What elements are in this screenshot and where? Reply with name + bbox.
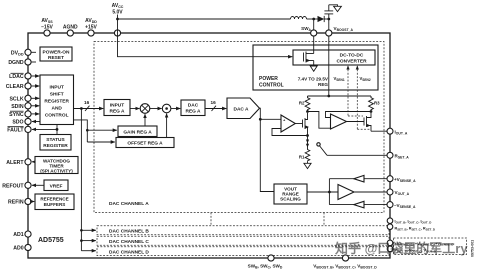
svg-text:7.4V TO 29.5V: 7.4V TO 29.5V: [298, 77, 329, 82]
node VBOOST junction: [327, 18, 330, 21]
adder X2: [162, 104, 171, 113]
pin SYNC: [9, 111, 31, 118]
wire REFIN in: [31, 201, 34, 203]
wire DAC A output down: [260, 108, 275, 191]
DAC CHANNEL A dashed box: [94, 42, 384, 213]
pin RSET_BCD: [387, 224, 435, 231]
pin SDO: [12, 118, 31, 125]
wire REFOUT out: [32, 184, 44, 186]
svg-text:SYNC: SYNC: [9, 112, 24, 118]
svg-text:AD1: AD1: [13, 232, 23, 238]
svg-text:FAULT: FAULT: [7, 127, 24, 133]
node R2 bottom: [306, 110, 309, 113]
svg-text:REGISTER: REGISTER: [44, 98, 69, 104]
chip outline AD5755: [28, 33, 390, 258]
svg-text:09753-001: 09753-001: [471, 240, 475, 257]
transistor Q2: [303, 113, 310, 136]
svg-text:SHIFT: SHIFT: [50, 91, 64, 97]
dc-to-dc converter box: [293, 50, 375, 65]
wire boost rail: [308, 95, 372, 97]
node source junction: [306, 134, 309, 137]
transistor Q3: [364, 113, 371, 131]
status register box: [40, 135, 71, 151]
svg-text:REG: REG: [318, 82, 328, 87]
wire to RSET pin: [327, 154, 390, 156]
pin LDAC: [9, 73, 31, 80]
pin +VSENSE_BCD: [387, 240, 453, 247]
wire SWA pin to Q1 drain: [313, 36, 315, 53]
op-amp U2: [331, 114, 347, 129]
pin VOUT_BCD: [387, 246, 436, 253]
node channel C junction: [80, 239, 83, 242]
switch S1: [317, 143, 327, 156]
node R3 bottom: [370, 110, 373, 113]
capacitor C1: [324, 5, 333, 19]
svg-text:REFOUT: REFOUT: [2, 183, 24, 189]
svg-text:DAC A: DAC A: [233, 106, 249, 112]
wire diode to boost node: [324, 18, 329, 20]
input reg A box: [104, 100, 130, 116]
node bus junction: [80, 107, 83, 110]
svg-text:REG A: REG A: [185, 109, 201, 115]
ground Q1 source: [310, 66, 317, 71]
svg-text:INPUT: INPUT: [110, 102, 124, 108]
node DAC A branch: [259, 118, 262, 121]
wire ALERT out: [32, 161, 35, 163]
ground R1: [304, 162, 311, 169]
svg-text:CLEAR: CLEAR: [6, 84, 24, 90]
svg-text:LDAC: LDAC: [9, 74, 24, 80]
svg-text:+15V: +15V: [85, 25, 97, 31]
svg-text:R1: R1: [299, 155, 305, 160]
pin SCLK: [9, 95, 31, 102]
wire AVCC down to pin: [117, 15, 119, 34]
DAC CHANNEL B dashed box: [97, 226, 389, 235]
op-amp U3 output: [338, 185, 354, 200]
wire SW node to pin: [313, 19, 315, 33]
buffer +sense: [329, 175, 390, 182]
wire SDO out: [32, 121, 40, 123]
wire SDIN: [31, 105, 39, 107]
svg-text:SDIN: SDIN: [11, 104, 24, 110]
svg-text:INPUT: INPUT: [49, 84, 63, 90]
offset reg A box: [116, 138, 174, 148]
pin +VSENSE_A: [387, 176, 416, 183]
svg-text:AGND: AGND: [63, 25, 78, 31]
node AVCC junction: [116, 18, 119, 21]
dashed label box BCD sense: [394, 238, 467, 255]
svg-text:AND: AND: [51, 105, 62, 111]
wire 16-bit bus to input reg: [74, 108, 104, 110]
wire to opamp1: [260, 118, 281, 120]
wire vout box to amp: [307, 191, 338, 193]
svg-text:CONTROL: CONTROL: [259, 82, 284, 88]
svg-text:POWER: POWER: [259, 76, 278, 82]
wire dac reg to DAC A: [205, 108, 226, 110]
pin IOUT_A: [387, 128, 408, 135]
wire multiplier to adder: [150, 108, 162, 110]
svg-text:SCALING: SCALING: [280, 197, 301, 202]
wire offset reg to adder: [166, 114, 168, 138]
wire LDAC: [31, 75, 39, 77]
node boost rail junction: [327, 95, 330, 98]
wire VSEN2 dashed: [356, 65, 371, 129]
resistor R2: [299, 96, 310, 112]
svg-text:BUFFERS: BUFFERS: [44, 202, 66, 207]
svg-text:CONVERTER: CONVERTER: [336, 58, 367, 64]
svg-text:RSET_B, RSET_C, RSET_D: RSET_B, RSET_C, RSET_D: [395, 227, 435, 232]
wire opamp2 feedback: [326, 112, 372, 118]
wire inductor to diode: [307, 18, 318, 20]
pin AVDD: [85, 18, 97, 36]
power control box: [253, 45, 378, 90]
wire VBOOST pin down to rail: [328, 36, 330, 96]
wire boost node to pin: [328, 19, 330, 33]
input shift register box U-ctrl: [40, 75, 74, 125]
svg-text:(SPI ACTIVITY): (SPI ACTIVITY): [40, 168, 73, 173]
svg-text:VREF: VREF: [50, 183, 63, 189]
svg-text:DC-TO-DC: DC-TO-DC: [340, 53, 364, 59]
wire arrow into channel D: [81, 250, 95, 252]
pin VBOOST_BCD: [313, 255, 377, 270]
pin REFIN: [8, 198, 31, 205]
svg-text:ALERT: ALERT: [6, 160, 24, 166]
wire R2 node to opamp2 input: [308, 112, 331, 129]
pin AVSS: [41, 18, 53, 36]
multiplier X1: [140, 104, 150, 114]
svg-text:REFIN: REFIN: [8, 200, 24, 206]
pin DVDD: [11, 49, 31, 56]
inductor L1: [291, 17, 307, 20]
svg-text:RESET: RESET: [48, 55, 64, 61]
svg-text:R3: R3: [374, 101, 380, 106]
svg-text:DGND: DGND: [8, 60, 24, 66]
svg-text:16: 16: [84, 100, 90, 105]
dac reg A box: [181, 100, 205, 116]
svg-text:SCLK: SCLK: [9, 96, 23, 102]
transistor Q1 power switch: [304, 52, 314, 67]
buffer -sense: [329, 201, 390, 208]
wire SCLK: [31, 97, 39, 99]
pin AVCC: [112, 3, 124, 36]
resistor R1: [299, 149, 310, 162]
wire gain reg feed: [87, 129, 117, 131]
svg-text:IOUT_B, IOUT_C, IOUT_D: IOUT_B, IOUT_C, IOUT_D: [395, 220, 432, 225]
svg-text:16: 16: [211, 100, 217, 105]
label bus 16: [84, 100, 90, 111]
wire amp to VOUT pin: [354, 191, 390, 193]
svg-text:GAIN REG A: GAIN REG A: [123, 130, 152, 136]
wire AVCC to inductor: [118, 18, 291, 20]
vout range scaling box: [274, 184, 307, 204]
svg-text:R2: R2: [299, 101, 305, 106]
svg-text:POWER-ON: POWER-ON: [43, 49, 70, 55]
pin AD1: [13, 231, 31, 238]
svg-text:OFFSET REG A: OFFSET REG A: [127, 141, 163, 147]
pin ALERT: [6, 159, 31, 166]
wire adder to dac reg: [171, 108, 180, 110]
svg-text:SDO: SDO: [12, 120, 23, 126]
node vout junction: [328, 191, 331, 194]
wire AVCC to power control: [118, 33, 293, 57]
svg-text:DAC CHANNEL C: DAC CHANNEL C: [109, 239, 149, 245]
pin IOUT_BCD: [387, 218, 431, 225]
current source arrows: [306, 136, 309, 150]
DAC CHANNEL D dashed box: [97, 247, 389, 256]
ground top-right: [334, 6, 342, 11]
gain reg A box: [118, 126, 157, 137]
wire FAULT out: [32, 128, 57, 130]
node FAULT junction: [56, 128, 59, 131]
wire DGND stub: [31, 61, 36, 63]
svg-text:DAC: DAC: [188, 103, 199, 109]
wire DVDD stub: [31, 51, 36, 53]
svg-text:REGISTER: REGISTER: [43, 143, 68, 149]
wire cap to ground: [329, 5, 338, 7]
svg-text:REFERENCE: REFERENCE: [40, 197, 68, 202]
wire dashed connector left: [210, 213, 212, 226]
vref box: [44, 180, 68, 191]
node gain feed junction: [86, 129, 89, 132]
wire arrow into channel C: [81, 240, 95, 242]
resistor R3: [369, 96, 381, 112]
wire offset reg feed: [87, 141, 115, 143]
svg-text:–15V: –15V: [41, 25, 53, 31]
pin CLEAR: [6, 83, 31, 90]
pin -VSENSE_A: [387, 202, 416, 209]
svg-text:AD5755: AD5755: [38, 237, 64, 244]
svg-text:DAC CHANNEL A: DAC CHANNEL A: [109, 201, 149, 207]
DAC A pentagon: [227, 98, 260, 119]
pin AD0: [13, 244, 31, 251]
wire opamp2 to Q3 gate: [347, 121, 365, 123]
pin FAULT: [7, 126, 31, 133]
op-amp U1: [281, 115, 295, 132]
wire channel bus vertical: [80, 109, 82, 251]
wire gain reg to multiplier: [144, 114, 146, 126]
svg-text:REG A: REG A: [109, 108, 125, 114]
pin AGND: [63, 25, 78, 36]
watchdog timer box: [35, 157, 78, 174]
svg-text:DAC CHANNEL D: DAC CHANNEL D: [109, 249, 149, 255]
wire status node vertical: [56, 125, 58, 135]
wire input reg to multiplier: [130, 108, 139, 110]
wire CLEAR: [31, 85, 39, 87]
svg-text:STATUS: STATUS: [46, 137, 65, 143]
wire dashed connector right: [323, 213, 325, 226]
pin RSET_A: [387, 152, 409, 159]
pin VBOOST_A: [326, 26, 354, 36]
pin REFOUT: [2, 182, 31, 189]
svg-text:CONTROL: CONTROL: [45, 112, 69, 118]
wire SYNC: [31, 113, 39, 115]
pin SDIN: [11, 103, 31, 110]
pin VOUT_A: [387, 189, 410, 196]
wire control to gain-offset feed: [74, 120, 88, 142]
wire sense vertical: [328, 179, 330, 205]
wire opamp1 feedback: [272, 129, 308, 136]
wire VSEN1 dashed: [346, 65, 363, 116]
svg-text:知乎 @口袋里的军工ry: 知乎 @口袋里的军工ry: [335, 241, 468, 256]
diode D1: [318, 16, 325, 22]
wire Q3 to IOUT pin: [371, 130, 390, 132]
pin SW_BCD: [248, 255, 283, 270]
svg-text:AD0: AD0: [13, 246, 23, 252]
pin SWA: [301, 26, 317, 36]
wire arrow into channel B: [81, 229, 95, 231]
power-on reset box: [40, 47, 72, 61]
label bus 16 second: [211, 100, 217, 111]
pin DGND: [8, 59, 31, 66]
wire opamp1 to Q2 gate: [295, 123, 302, 125]
DAC CHANNEL C dashed box: [97, 236, 389, 245]
node channel B junction: [80, 229, 83, 232]
svg-text:DAC CHANNEL B: DAC CHANNEL B: [109, 229, 149, 235]
node SW junction: [312, 18, 315, 21]
reference buffers box: [35, 194, 74, 210]
